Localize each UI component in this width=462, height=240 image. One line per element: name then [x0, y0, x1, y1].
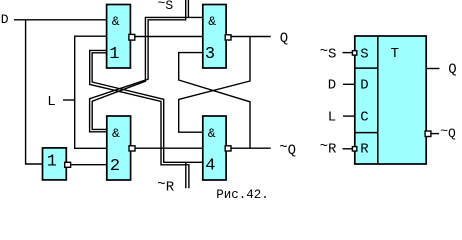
svg-text:~R: ~R	[157, 177, 174, 196]
svg-text:1: 1	[47, 153, 57, 172]
svg-text:D: D	[328, 77, 336, 93]
wire: ~S branch b to gate 2	[90, 0, 186, 132]
wire: D input to gate 1	[14, 19, 107, 21]
svg-text:&: &	[208, 126, 216, 141]
svg-text:~S: ~S	[158, 0, 174, 13]
wire: D pin stub	[343, 83, 355, 85]
~R pin inversion square	[352, 147, 356, 151]
gate 3 (NAND) body	[203, 5, 226, 69]
block pin column divider	[377, 36, 379, 164]
svg-text:~Q: ~Q	[279, 140, 296, 159]
svg-text:&: &	[112, 14, 120, 29]
gate 3 inversion square	[225, 35, 231, 40]
gate 4 inversion square	[225, 146, 231, 151]
svg-text:Рис.42.: Рис.42.	[216, 188, 269, 202]
wire: ~R branch b to gate 1	[90, 50, 189, 188]
svg-text:R: R	[360, 142, 369, 158]
wire: gate 2 output to gate 4	[135, 147, 203, 149]
wire: Q output stub	[426, 68, 439, 70]
wire: L stub	[63, 99, 75, 101]
svg-text:D: D	[360, 77, 368, 93]
svg-text:Q: Q	[280, 31, 288, 47]
svg-text:~Q: ~Q	[440, 124, 456, 142]
flip-flop block symbol body	[355, 36, 426, 164]
svg-text:T: T	[391, 46, 399, 62]
block R section divider	[355, 132, 378, 134]
~S pin inversion square	[352, 51, 356, 55]
wire: C pin stub	[343, 115, 355, 117]
wire: gate 4 output feedback to gate 3 input	[179, 53, 250, 149]
svg-text:2: 2	[110, 157, 120, 176]
svg-text:~R: ~R	[320, 139, 337, 158]
wire: D branch down to inverter input	[26, 20, 43, 164]
gate 2 (NAND) body	[107, 116, 131, 180]
wire: gate 4 output to ~Q	[231, 147, 271, 149]
wire: ~R branch a to gate 4 and gate 1	[92, 53, 203, 189]
svg-text:L: L	[47, 94, 55, 110]
inverter inversion square	[65, 162, 71, 167]
svg-text:S: S	[360, 46, 368, 62]
gate 1 inversion square	[129, 34, 135, 40]
svg-text:1: 1	[109, 45, 119, 64]
wire: ~S pin stub	[343, 52, 353, 54]
svg-text:D: D	[1, 12, 9, 27]
wire: inverter output to gate 2	[71, 164, 107, 166]
~Q output inversion square	[425, 131, 431, 137]
svg-text:3: 3	[205, 45, 215, 64]
wire: ~Q output stub	[431, 133, 439, 135]
gate 1 (NAND) body	[107, 5, 131, 69]
svg-text:~S: ~S	[320, 44, 337, 63]
wire: gate 1 output to gate 3	[135, 36, 203, 38]
wire: L vertical to gate 1 and gate 2	[75, 36, 107, 148]
inverter gate body	[43, 148, 67, 180]
svg-text:&: &	[112, 126, 120, 141]
wire: gate 3 output feedback to gate 4 input	[179, 37, 250, 133]
gate 4 (NAND) body	[203, 116, 226, 180]
gate 2 inversion square	[129, 146, 135, 151]
svg-text:&: &	[208, 14, 216, 29]
block S section divider	[355, 67, 378, 69]
svg-text:4: 4	[205, 156, 215, 175]
wire: gate 3 output to Q	[231, 36, 271, 38]
wire: ~S branch a to gate 3 and gate 2	[92, 0, 203, 129]
svg-text:L: L	[328, 110, 336, 126]
svg-text:C: C	[360, 110, 368, 126]
svg-text:Q: Q	[448, 62, 456, 78]
wire: ~R pin stub	[343, 148, 353, 150]
